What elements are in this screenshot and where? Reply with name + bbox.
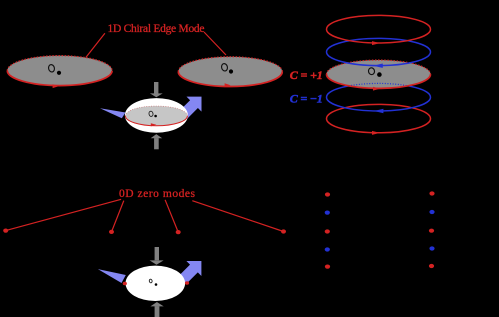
- svg-text:0D zero modes: 0D zero modes: [119, 188, 196, 200]
- svg-text:C = +1: C = +1: [290, 68, 323, 82]
- svg-text:C = −1: C = −1: [290, 91, 323, 105]
- svg-text:1D Chiral Edge Mode: 1D Chiral Edge Mode: [108, 23, 205, 35]
